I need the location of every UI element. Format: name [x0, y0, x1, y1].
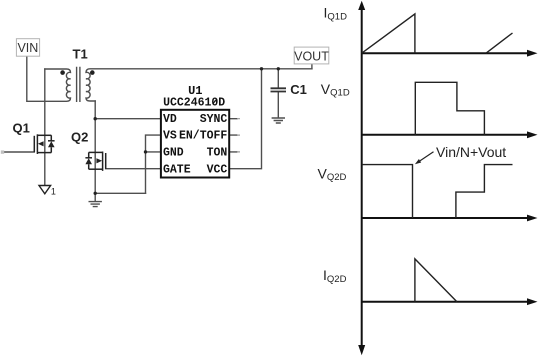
svg-text:Q2: Q2 — [71, 129, 88, 144]
svg-text:VQ2D: VQ2D — [318, 165, 347, 183]
svg-text:VOUT: VOUT — [294, 49, 329, 63]
svg-text:EN/TOFF: EN/TOFF — [179, 130, 227, 143]
svg-text:VCC: VCC — [207, 163, 228, 176]
svg-text:Q1: Q1 — [13, 121, 30, 136]
svg-text:VIN: VIN — [17, 41, 38, 55]
svg-text:IQ2D: IQ2D — [323, 267, 347, 285]
svg-text:VD: VD — [163, 113, 177, 126]
svg-text:UCC24610D: UCC24610D — [163, 97, 225, 110]
svg-text:T1: T1 — [73, 46, 88, 61]
svg-text:TON: TON — [207, 147, 228, 160]
svg-text:VS: VS — [163, 130, 177, 143]
svg-text:SYNC: SYNC — [200, 113, 228, 126]
svg-text:GATE: GATE — [163, 163, 191, 176]
svg-text:1: 1 — [51, 187, 56, 197]
svg-text:IQ1D: IQ1D — [324, 5, 348, 23]
svg-text:C1: C1 — [290, 82, 307, 97]
svg-text:VQ1D: VQ1D — [321, 81, 350, 99]
svg-text:Vin/N+Vout: Vin/N+Vout — [436, 144, 506, 160]
svg-text:GND: GND — [163, 147, 184, 160]
